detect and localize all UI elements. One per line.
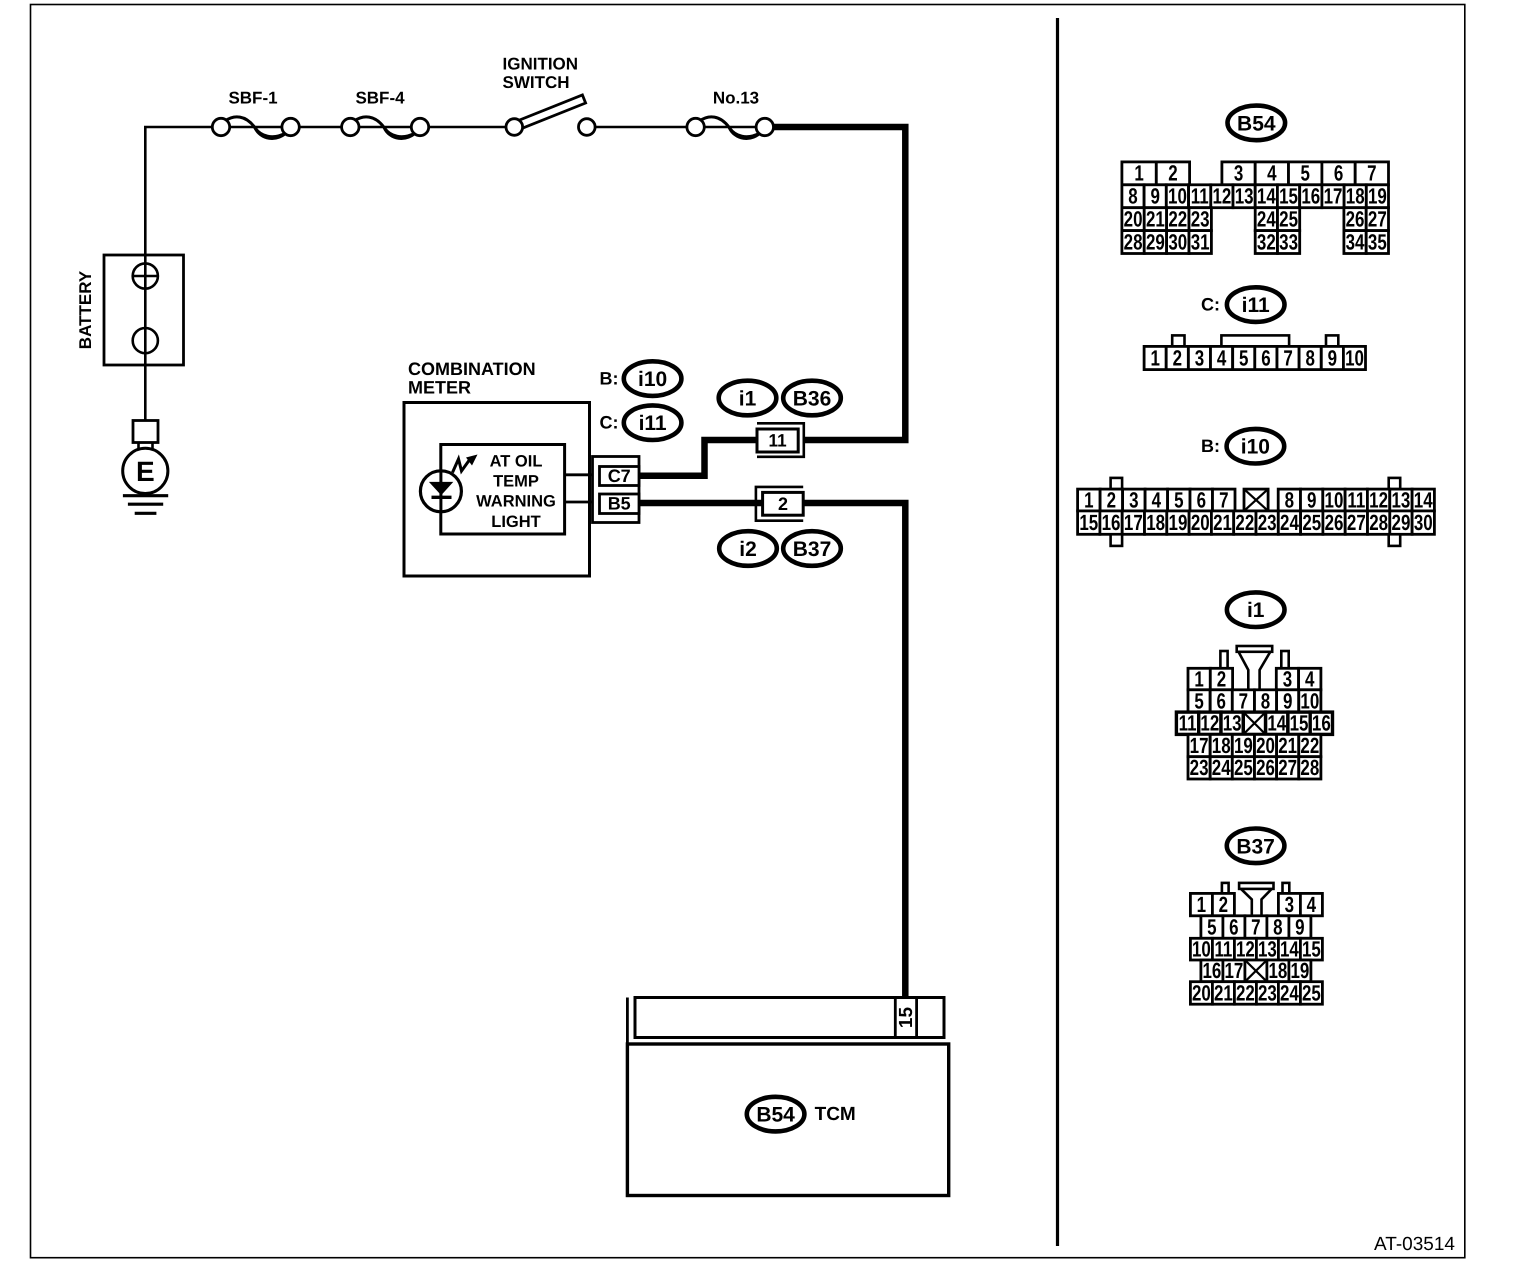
svg-text:4: 4 — [1267, 161, 1277, 186]
svg-text:22: 22 — [1300, 733, 1319, 758]
connector B54 oval — [1228, 106, 1286, 141]
svg-text:2: 2 — [1168, 161, 1177, 186]
svg-text:24: 24 — [1212, 755, 1231, 780]
svg-text:8: 8 — [1128, 184, 1137, 209]
oval label B: i10 (meter) — [600, 361, 682, 396]
svg-text:5: 5 — [1239, 345, 1248, 370]
svg-text:15: 15 — [1279, 184, 1298, 209]
svg-text:8: 8 — [1285, 487, 1294, 512]
TCM box — [627, 1044, 948, 1196]
wire meter C7 to pin 11 (thick) — [639, 440, 758, 476]
AT OIL TEMP WARNING LIGHT (LED) — [420, 445, 593, 535]
connector i1 pinout row 1 (pins 1-4 with key) — [1188, 646, 1321, 691]
oval label i1 — [719, 381, 777, 416]
svg-text:18: 18 — [1346, 184, 1365, 209]
connector B37 oval — [1227, 829, 1285, 864]
svg-text:13: 13 — [1223, 711, 1242, 736]
svg-text:13: 13 — [1391, 487, 1410, 512]
svg-text:B:: B: — [1201, 436, 1220, 456]
svg-text:11: 11 — [1179, 711, 1197, 736]
svg-text:4: 4 — [1307, 892, 1317, 917]
svg-text:16: 16 — [1102, 510, 1121, 535]
svg-text:B54: B54 — [756, 1104, 795, 1127]
connector B37 pinout row 4 (pins 16-19 with blank) — [1201, 958, 1311, 983]
connector B54 pinout row 1 (pins 1-7) — [1122, 161, 1389, 186]
svg-text:B54: B54 — [1237, 112, 1276, 135]
svg-text:20: 20 — [1192, 980, 1211, 1005]
svg-text:11: 11 — [1191, 184, 1209, 209]
svg-text:1: 1 — [1134, 161, 1143, 186]
svg-text:3: 3 — [1285, 892, 1294, 917]
svg-text:i1: i1 — [1247, 599, 1265, 622]
connector B37 pinout row 1 (pins 1-4 with key) — [1190, 883, 1322, 917]
svg-text:16: 16 — [1312, 711, 1331, 736]
svg-text:27: 27 — [1278, 755, 1297, 780]
svg-text:B37: B37 — [1236, 835, 1275, 858]
ground E — [123, 421, 168, 514]
connector i10 pinout row 2 (pins 15-30) — [1078, 510, 1435, 546]
svg-text:25: 25 — [1279, 206, 1298, 231]
svg-text:26: 26 — [1256, 755, 1275, 780]
svg-text:22: 22 — [1236, 980, 1255, 1005]
svg-text:21: 21 — [1278, 733, 1297, 758]
svg-text:7: 7 — [1283, 345, 1292, 370]
svg-text:2: 2 — [778, 494, 788, 514]
connector i11 pinout (pins 1-10) — [1144, 335, 1365, 370]
svg-text:4: 4 — [1152, 487, 1162, 512]
svg-text:SBF-1: SBF-1 — [228, 89, 277, 108]
svg-text:14: 14 — [1267, 711, 1286, 736]
ignition switch — [503, 55, 596, 136]
svg-text:11: 11 — [769, 431, 787, 451]
svg-text:9: 9 — [1151, 184, 1160, 209]
svg-text:21: 21 — [1213, 510, 1232, 535]
svg-text:1: 1 — [1197, 892, 1206, 917]
svg-text:2: 2 — [1219, 892, 1228, 917]
connector i10 pinout row 1 (pins 1-14) — [1078, 478, 1435, 512]
label AT-03514 — [1374, 1234, 1455, 1255]
svg-text:21: 21 — [1214, 980, 1233, 1005]
svg-text:27: 27 — [1347, 510, 1366, 535]
connector i1 pinout row 4 (pins 17-22) — [1188, 733, 1321, 758]
svg-text:B:: B: — [600, 369, 619, 389]
svg-text:20: 20 — [1256, 733, 1275, 758]
svg-text:7: 7 — [1367, 161, 1376, 186]
svg-text:6: 6 — [1197, 487, 1206, 512]
svg-text:22: 22 — [1235, 510, 1254, 535]
svg-text:9: 9 — [1307, 487, 1316, 512]
connector i1 pinout row 2 (pins 5-10) — [1188, 688, 1321, 713]
svg-text:SBF-4: SBF-4 — [355, 89, 405, 108]
svg-text:24: 24 — [1280, 980, 1299, 1005]
svg-text:i11: i11 — [1242, 294, 1270, 317]
connector B37 pinout row 5 (pins 20-25) — [1190, 980, 1322, 1005]
svg-text:33: 33 — [1279, 229, 1298, 254]
svg-text:C7: C7 — [608, 466, 631, 486]
svg-text:25: 25 — [1302, 980, 1321, 1005]
svg-text:9: 9 — [1283, 688, 1292, 713]
meter connector pins C7 / B5 — [593, 457, 640, 523]
svg-text:12: 12 — [1212, 184, 1231, 209]
svg-text:19: 19 — [1169, 510, 1188, 535]
connector i1/B36 pin 11 — [757, 423, 804, 457]
svg-text:i10: i10 — [638, 368, 667, 391]
svg-text:i10: i10 — [1241, 436, 1270, 459]
svg-text:No.13: No.13 — [713, 89, 759, 108]
svg-text:23: 23 — [1258, 980, 1277, 1005]
svg-text:i1: i1 — [739, 388, 757, 411]
svg-text:C:: C: — [1201, 295, 1220, 315]
svg-text:17: 17 — [1124, 510, 1143, 535]
connector i1 pinout row 5 (pins 23-28) — [1188, 755, 1321, 780]
svg-text:10: 10 — [1300, 688, 1319, 713]
svg-text:2: 2 — [1107, 487, 1116, 512]
svg-text:23: 23 — [1191, 206, 1210, 231]
svg-text:34: 34 — [1346, 229, 1365, 254]
fuse No.13 — [687, 89, 774, 139]
svg-text:28: 28 — [1369, 510, 1388, 535]
svg-text:3: 3 — [1195, 345, 1204, 370]
svg-text:5: 5 — [1194, 688, 1203, 713]
svg-text:AT-03514: AT-03514 — [1374, 1234, 1455, 1255]
svg-text:6: 6 — [1261, 345, 1270, 370]
svg-text:AT OIL: AT OIL — [490, 453, 543, 471]
svg-text:28: 28 — [1124, 229, 1143, 254]
svg-text:24: 24 — [1280, 510, 1299, 535]
connector B37 pinout row 2 (pins 5-9) — [1201, 914, 1311, 939]
svg-text:19: 19 — [1234, 733, 1253, 758]
fuse SBF-4 — [342, 89, 429, 139]
connector i1 pinout row 3 (pins 11-16) — [1176, 711, 1332, 736]
svg-text:20: 20 — [1191, 510, 1210, 535]
svg-text:23: 23 — [1258, 510, 1277, 535]
wire ignition switch to connector pin 11 (thick) — [773, 127, 905, 440]
svg-text:14: 14 — [1257, 184, 1276, 209]
connector i1 oval — [1227, 592, 1285, 627]
connector C: i11 oval — [1201, 287, 1284, 322]
svg-text:C:: C: — [600, 413, 619, 433]
svg-text:25: 25 — [1302, 510, 1321, 535]
connector B: i10 oval — [1201, 429, 1284, 464]
svg-text:METER: METER — [408, 378, 471, 398]
svg-text:11: 11 — [1347, 487, 1365, 512]
svg-text:i2: i2 — [739, 538, 757, 561]
connector B54 pinout row 2 (pins 8-19) — [1122, 184, 1389, 209]
svg-text:15: 15 — [1290, 711, 1309, 736]
svg-text:TEMP: TEMP — [493, 473, 539, 491]
svg-text:BATTERY: BATTERY — [76, 270, 95, 349]
svg-text:15: 15 — [896, 1007, 917, 1029]
svg-text:18: 18 — [1212, 733, 1231, 758]
connector B54 pinout row 4 (pins 28-35) — [1122, 229, 1389, 254]
svg-text:IGNITION: IGNITION — [503, 55, 579, 74]
svg-text:10: 10 — [1168, 184, 1187, 209]
svg-text:15: 15 — [1079, 510, 1098, 535]
svg-text:19: 19 — [1368, 184, 1387, 209]
svg-text:23: 23 — [1190, 755, 1209, 780]
combination meter box — [404, 359, 590, 576]
svg-text:5: 5 — [1300, 161, 1309, 186]
oval label C: i11 (meter) — [600, 405, 682, 440]
svg-text:29: 29 — [1146, 229, 1165, 254]
svg-text:20: 20 — [1124, 206, 1143, 231]
svg-text:10: 10 — [1345, 345, 1364, 370]
svg-text:35: 35 — [1368, 229, 1387, 254]
svg-text:3: 3 — [1129, 487, 1138, 512]
svg-text:B5: B5 — [608, 494, 631, 514]
wire pin 2 to TCM pin 15 (thick) — [803, 503, 905, 998]
oval label B37 — [783, 531, 841, 566]
svg-text:17: 17 — [1190, 733, 1209, 758]
svg-text:4: 4 — [1217, 345, 1227, 370]
svg-text:2: 2 — [1173, 345, 1182, 370]
battery — [76, 255, 184, 365]
svg-text:WARNING: WARNING — [476, 493, 556, 511]
svg-text:6: 6 — [1334, 161, 1343, 186]
svg-text:3: 3 — [1234, 161, 1243, 186]
svg-text:21: 21 — [1146, 206, 1165, 231]
svg-text:i11: i11 — [639, 412, 667, 435]
svg-text:16: 16 — [1301, 184, 1320, 209]
svg-text:24: 24 — [1257, 206, 1276, 231]
svg-text:8: 8 — [1306, 345, 1315, 370]
oval label B36 — [783, 381, 841, 416]
svg-text:8: 8 — [1261, 688, 1270, 713]
svg-text:17: 17 — [1324, 184, 1343, 209]
svg-text:COMBINATION: COMBINATION — [408, 359, 536, 379]
svg-text:E: E — [136, 456, 155, 487]
svg-text:26: 26 — [1325, 510, 1344, 535]
oval label i2 — [719, 531, 777, 566]
svg-text:B36: B36 — [793, 388, 832, 411]
svg-text:SWITCH: SWITCH — [503, 73, 570, 92]
svg-text:14: 14 — [1414, 487, 1433, 512]
svg-text:18: 18 — [1146, 510, 1165, 535]
svg-text:28: 28 — [1300, 755, 1319, 780]
svg-text:5: 5 — [1174, 487, 1183, 512]
svg-text:7: 7 — [1239, 688, 1248, 713]
svg-text:1: 1 — [1150, 345, 1159, 370]
svg-text:LIGHT: LIGHT — [491, 513, 541, 531]
svg-text:B37: B37 — [793, 538, 832, 561]
svg-text:27: 27 — [1368, 206, 1387, 231]
svg-text:22: 22 — [1168, 206, 1187, 231]
svg-text:32: 32 — [1257, 229, 1276, 254]
TCM connector strip with pin 15 — [627, 998, 944, 1045]
svg-text:1: 1 — [1084, 487, 1093, 512]
connector B54 pinout row 3 (pins 20-27) — [1122, 206, 1389, 231]
svg-text:TCM: TCM — [815, 1104, 856, 1125]
svg-text:10: 10 — [1325, 487, 1344, 512]
svg-text:25: 25 — [1234, 755, 1253, 780]
svg-text:7: 7 — [1219, 487, 1228, 512]
svg-text:31: 31 — [1191, 229, 1210, 254]
wire meter B5 to pin 2 (thick) — [639, 500, 763, 507]
svg-text:12: 12 — [1200, 711, 1219, 736]
fuse SBF-1 — [212, 89, 299, 139]
svg-text:29: 29 — [1392, 510, 1411, 535]
connector i2/B37 pin 2 — [756, 487, 803, 521]
svg-text:12: 12 — [1369, 487, 1388, 512]
svg-text:13: 13 — [1235, 184, 1254, 209]
svg-text:30: 30 — [1414, 510, 1433, 535]
svg-text:26: 26 — [1346, 206, 1365, 231]
svg-text:30: 30 — [1168, 229, 1187, 254]
connector B37 pinout row 3 (pins 10-15) — [1190, 936, 1322, 961]
wire battery B+ to ignition switch — [145, 127, 773, 421]
svg-text:9: 9 — [1328, 345, 1337, 370]
svg-text:6: 6 — [1217, 688, 1226, 713]
